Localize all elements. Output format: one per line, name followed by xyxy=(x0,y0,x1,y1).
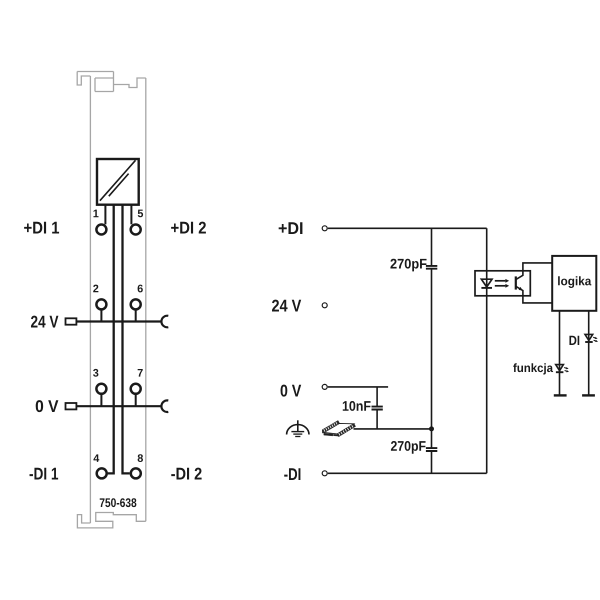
DIN carrier rail drawing (isometric) xyxy=(323,421,356,437)
logika block U2 xyxy=(552,256,596,311)
label 24 V (schematic) xyxy=(272,300,301,312)
stem contact 6 to 24V rail xyxy=(135,310,137,321)
module housing left edge xyxy=(89,76,91,523)
wire logika to DI LED xyxy=(588,311,590,396)
label -DI (schematic) xyxy=(284,468,300,480)
wire earth line (rail to junction) xyxy=(354,428,432,430)
0V power-jumper rail wire xyxy=(76,405,161,407)
galvanic isolation block (square with double diagonal) xyxy=(97,159,139,205)
stem contact 2 to 24V rail xyxy=(100,310,102,321)
label funkcja xyxy=(513,363,553,374)
contact circle 8 xyxy=(131,468,141,478)
optocoupler box U1 xyxy=(475,271,530,296)
module housing bottom profile with foot tab xyxy=(77,513,145,528)
terminal circle 0 V xyxy=(322,384,327,389)
stem from block to contact 1 xyxy=(104,205,106,225)
pin number 4 xyxy=(93,454,99,462)
terminator bar (funkcja branch) xyxy=(554,394,567,396)
stem from block to contact 5 xyxy=(130,205,132,225)
terminal circle +DI xyxy=(322,226,327,231)
label 0 V (schematic) xyxy=(281,385,302,397)
label +DI 1 xyxy=(24,222,59,234)
stem contact 3 to 0V rail xyxy=(100,395,102,407)
contact circle 4 xyxy=(97,468,107,478)
value label 270pF (upper) xyxy=(390,259,426,272)
contact circle 1 xyxy=(96,225,106,235)
label 24 V (module) xyxy=(31,316,58,328)
pin number 6 xyxy=(138,285,143,293)
optocoupler LED D1 xyxy=(481,279,492,288)
earth ground symbol (arc over ground hatches) xyxy=(287,420,309,436)
wire 0V horizontal xyxy=(328,386,388,388)
wire -DI horizontal xyxy=(328,472,487,474)
wire capacitor branch lower (C2 to -DI) xyxy=(431,451,433,473)
wire capacitor branch middle (C1 to junction to C2) xyxy=(431,269,433,448)
0V male jumper contact symbol xyxy=(66,403,77,409)
capacitor C1 270pF plates xyxy=(426,266,437,269)
optocoupler light-transfer arrows xyxy=(495,279,509,288)
pin number 1 xyxy=(93,210,98,218)
contact circle 2 xyxy=(96,299,106,309)
label +DI (schematic) xyxy=(279,222,303,234)
label DI xyxy=(569,336,579,345)
optocoupler phototransistor Q1 xyxy=(516,263,553,303)
capacitor C3 10nF plates xyxy=(372,407,383,410)
internal bus wire left (block to contact 4) xyxy=(108,205,114,474)
wire C3 to earth line xyxy=(376,410,378,429)
wire 0V to capacitor C3 xyxy=(376,387,378,407)
label 0 V (module) xyxy=(36,400,59,412)
internal bus wire right (block to contact 8) xyxy=(123,205,130,474)
label +DI 2 xyxy=(171,222,206,234)
module housing outline (top profile with DIN-rail release tab) xyxy=(77,72,146,92)
pin number 7 xyxy=(138,369,143,377)
terminator bar (DI branch) xyxy=(582,394,595,396)
contact circle 3 xyxy=(96,384,106,394)
LED DI indicator xyxy=(585,334,598,342)
junction dot (earth tap) xyxy=(429,426,434,431)
label -DI 2 xyxy=(171,468,201,480)
LED funkcja indicator xyxy=(556,365,569,373)
pin number 8 xyxy=(138,454,143,462)
contact circle 7 xyxy=(131,384,141,394)
terminal circle 24 V xyxy=(322,303,327,308)
pin number 5 xyxy=(138,210,143,218)
0V female jumper contact symbol xyxy=(161,400,168,412)
value label 270pF (lower) xyxy=(391,441,426,454)
terminal circle -DI xyxy=(322,471,327,476)
24V female jumper contact symbol xyxy=(161,316,168,328)
label logika xyxy=(558,276,591,288)
label -DI 1 xyxy=(30,468,59,480)
contact circle 6 xyxy=(131,299,141,309)
pin number 2 xyxy=(93,285,98,293)
24V power-jumper rail wire xyxy=(76,320,161,322)
wire capacitor branch upper (+DI to C1) xyxy=(431,228,433,266)
capacitor C2 270pF plates xyxy=(426,448,437,451)
24V male jumper contact symbol xyxy=(66,318,77,324)
module housing right edge xyxy=(145,78,147,521)
wire +DI to -DI vertical through optocoupler LED xyxy=(486,228,488,473)
contact circle 5 xyxy=(131,225,141,235)
wire logika to funkcja LED xyxy=(559,311,561,396)
stem contact 7 to 0V rail xyxy=(135,395,137,407)
value label 10nF xyxy=(343,401,371,411)
pin number 3 xyxy=(93,369,98,377)
wire +DI horizontal xyxy=(328,227,487,229)
label 750-638 (part number) xyxy=(100,498,137,507)
